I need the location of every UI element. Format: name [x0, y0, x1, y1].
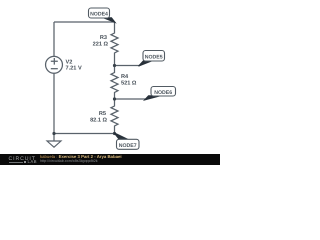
wire bottom horizontal [54, 133, 115, 135]
label R4 value [121, 74, 137, 87]
wire top horizontal [54, 21, 115, 23]
CircuitLab logo [9, 157, 36, 162]
node junction ground [52, 132, 55, 135]
wire left vertical upper [53, 22, 55, 56]
svg-text:NODE6: NODE6 [154, 90, 172, 96]
svg-text:NODE5: NODE5 [145, 54, 163, 60]
footer bar [0, 154, 220, 165]
resistor R5 [111, 99, 118, 134]
svg-text:521 Ω: 521 Ω [121, 81, 137, 87]
wire ground stub [53, 134, 55, 142]
svg-text:221 Ω: 221 Ω [93, 41, 109, 47]
svg-text:82.1 Ω: 82.1 Ω [90, 117, 107, 123]
svg-text:NODE7: NODE7 [119, 143, 137, 149]
node NODE7 flag [114, 133, 139, 150]
footer title text [40, 155, 122, 159]
wire left vertical lower [53, 73, 55, 133]
node NODE6 flag [145, 87, 176, 101]
svg-text:7.21 V: 7.21 V [66, 66, 82, 72]
node junction R4-R5 [113, 97, 116, 100]
svg-text:R4: R4 [121, 74, 129, 80]
resistor R3 [111, 22, 118, 66]
label R5 value [90, 111, 107, 124]
voltage source V2 [46, 56, 63, 73]
label R3 value [93, 35, 109, 48]
node NODE5 flag [139, 51, 165, 67]
wire NODE5 stub [115, 65, 141, 67]
svg-text:V2: V2 [66, 59, 73, 65]
footer url text [40, 160, 98, 164]
svg-text:R5: R5 [99, 111, 106, 117]
label V2 value [66, 59, 82, 71]
svg-text:NODE4: NODE4 [90, 11, 108, 17]
node NODE4 flag [89, 8, 116, 23]
svg-text:R3: R3 [100, 35, 107, 41]
node junction R3-R4 [113, 64, 116, 67]
wire NODE6 stub [115, 98, 147, 100]
ground [47, 141, 61, 147]
resistor R4 [111, 66, 118, 100]
node junction NODE7 corner [113, 132, 116, 135]
